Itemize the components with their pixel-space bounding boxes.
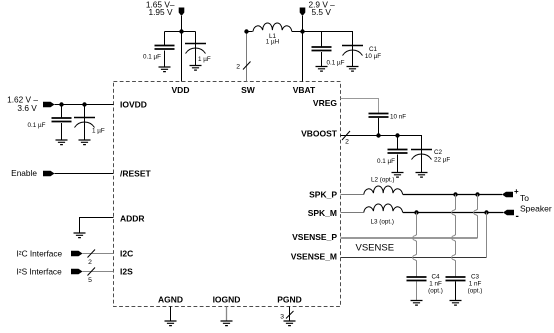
svg-text:1 µF: 1 µF: [92, 128, 105, 135]
svg-text:SW: SW: [241, 85, 256, 95]
svg-text:10 nF: 10 nF: [390, 114, 406, 121]
svg-text:VSENSE_P: VSENSE_P: [292, 232, 337, 242]
svg-text:I2C: I2C: [120, 249, 133, 259]
svg-text:PGND: PGND: [277, 295, 302, 305]
svg-text:+: +: [514, 187, 519, 196]
svg-text:Enable: Enable: [11, 168, 37, 178]
svg-text:1 nF: 1 nF: [429, 281, 442, 288]
svg-text:C4: C4: [431, 274, 440, 281]
svg-text:0.1 µF: 0.1 µF: [327, 60, 345, 67]
svg-text:VBAT: VBAT: [293, 85, 316, 95]
svg-text:ADDR: ADDR: [120, 214, 145, 224]
svg-text:0.1 µF: 0.1 µF: [377, 158, 395, 165]
svg-text:C3: C3: [471, 274, 480, 281]
svg-text:L2 (opt.): L2 (opt.): [371, 177, 394, 184]
svg-text:L3 (opt.): L3 (opt.): [371, 219, 394, 226]
svg-text:(opt.): (opt.): [468, 288, 483, 295]
svg-text:2: 2: [345, 139, 349, 146]
svg-text:1 µF: 1 µF: [198, 56, 211, 63]
svg-text:2: 2: [236, 64, 240, 71]
svg-text:IOGND: IOGND: [213, 295, 241, 305]
svg-text:To: To: [520, 193, 529, 203]
svg-text:3: 3: [280, 314, 284, 321]
svg-text:I²C Interface: I²C Interface: [17, 248, 63, 258]
svg-text:C2: C2: [434, 149, 443, 156]
svg-text:SPK_P: SPK_P: [309, 190, 337, 200]
svg-text:Speaker: Speaker: [520, 204, 552, 214]
svg-text:-: -: [516, 211, 519, 222]
svg-text:0.1 µF: 0.1 µF: [28, 122, 46, 129]
svg-text:AGND: AGND: [158, 295, 183, 305]
svg-text:5.5 V: 5.5 V: [312, 7, 332, 17]
svg-text:C1: C1: [369, 46, 378, 53]
svg-text:SPK_M: SPK_M: [308, 208, 337, 218]
svg-text:0.1 µF: 0.1 µF: [143, 54, 161, 61]
svg-text:I2S: I2S: [120, 267, 133, 277]
svg-text:VBOOST: VBOOST: [301, 129, 338, 139]
svg-text:1.95 V: 1.95 V: [149, 7, 173, 17]
svg-text:1 µH: 1 µH: [266, 39, 280, 46]
svg-text:VDD: VDD: [172, 85, 190, 95]
svg-text:VSENSE: VSENSE: [356, 243, 395, 254]
svg-text:/RESET: /RESET: [120, 169, 152, 179]
svg-text:3.6 V: 3.6 V: [17, 103, 37, 113]
svg-text:5: 5: [88, 277, 92, 284]
svg-text:1 nF: 1 nF: [469, 281, 482, 288]
svg-text:I²S Interface: I²S Interface: [17, 266, 63, 276]
svg-text:VREG: VREG: [313, 98, 337, 108]
svg-text:10 µF: 10 µF: [365, 53, 381, 60]
svg-text:IOVDD: IOVDD: [120, 100, 147, 110]
svg-text:(opt.): (opt.): [428, 288, 443, 295]
svg-text:22 µF: 22 µF: [434, 157, 450, 164]
svg-text:VSENSE_M: VSENSE_M: [291, 252, 337, 262]
svg-text:2: 2: [88, 259, 92, 266]
